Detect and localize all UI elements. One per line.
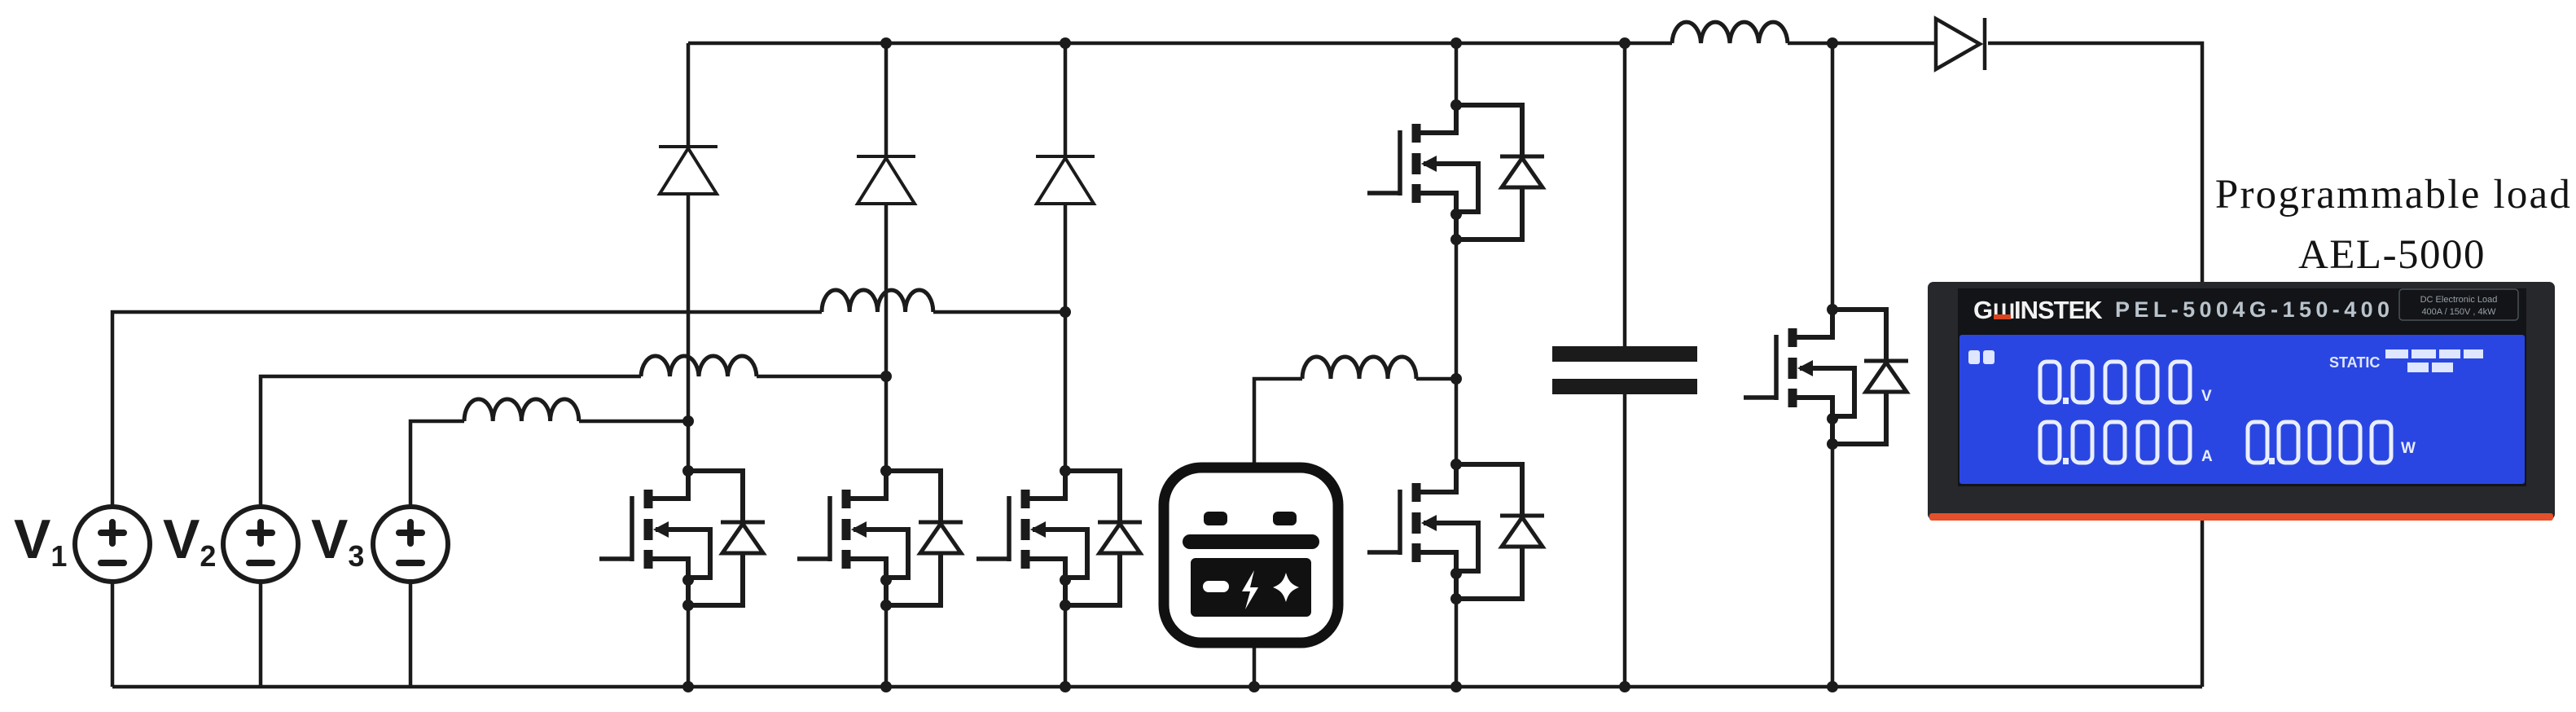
inductor L4 (battery) (1302, 357, 1416, 379)
node L3-leg1 junction (682, 415, 694, 427)
wire top bus inductor-to-diode (1788, 42, 1936, 46)
wire V2 inductor-to-leg2 (757, 375, 886, 379)
transistor Q3 (leg3 MOSFET) (976, 465, 1142, 611)
voltage source V1 (14, 507, 150, 582)
node bottom-bus leg3 junction (1060, 681, 1071, 692)
wire bottom bus (112, 685, 2202, 689)
node L1-leg3 junction (1060, 306, 1071, 318)
inductor L5 (output) (1672, 22, 1788, 43)
wire leg2 mosfet-to-bus (884, 605, 889, 687)
node bottom-bus leg1 junction (682, 681, 694, 692)
svg-text:INSTEK: INSTEK (2014, 296, 2103, 324)
wire leg1 mosfet-to-bus (687, 605, 691, 687)
node top-bus leg3 junction (1060, 37, 1071, 49)
transistor Q6 (load-leg MOSFET) (1744, 304, 1908, 450)
wire V1 inductor-to-leg3 (933, 310, 1065, 314)
svg-text:PEL-5004G-150-400: PEL-5004G-150-400 (2115, 297, 2394, 322)
node bottom-bus leg4 junction (1450, 681, 1462, 692)
diode D3 (1036, 156, 1095, 204)
svg-text:Programmable load: Programmable load (2215, 172, 2572, 218)
logo GW INSTEK (1973, 296, 2103, 324)
inductor L3 (V3 phase) (464, 399, 579, 421)
wire V3 inductor-to-leg1 (579, 420, 688, 424)
node top-bus load-leg junction (1827, 37, 1838, 49)
inductor L2 (V2 phase) (641, 356, 757, 376)
svg-text:G: G (1973, 296, 1993, 324)
wire leg3 diode-to-mosfet (1064, 204, 1068, 471)
wire battery inductor-to-leg4 (1416, 377, 1456, 381)
wire capacitor leg lower (1623, 394, 1627, 687)
svg-text:DC Electronic Load: DC Electronic Load (2420, 295, 2498, 305)
node bottom-bus battery junction (1249, 681, 1260, 692)
node bottom-bus load-leg junction (1827, 681, 1838, 692)
node top-bus leg2 junction (880, 37, 892, 49)
battery B1 (1164, 468, 1338, 643)
svg-text:V1: V1 (14, 508, 67, 573)
transistor Q1 (leg1 MOSFET) (599, 465, 765, 611)
node L2-leg2 junction (880, 371, 892, 382)
wire leg2 vertical upper (884, 43, 889, 155)
inductor L1 (V1 phase) (822, 290, 933, 312)
wire leg2 diode-to-mosfet (884, 204, 889, 471)
label DC Electronic Load ratings (2399, 289, 2518, 320)
svg-text:400A / 150V , 4kW: 400A / 150V , 4kW (2421, 307, 2496, 317)
wire battery top to inductor node (1254, 379, 1302, 463)
capacitor C1 (1552, 346, 1697, 394)
node top-bus capacitor junction (1619, 37, 1630, 49)
svg-text:V: V (2201, 388, 2212, 405)
wire leg1 vertical upper (687, 43, 691, 145)
node bottom-bus capacitor junction (1619, 681, 1630, 692)
svg-text:AEL-5000: AEL-5000 (2298, 232, 2486, 278)
transistor Q2 (leg2 MOSFET) (797, 465, 963, 611)
node bottom-bus leg2 junction (880, 681, 892, 692)
transistor Q4 (leg4 high-side MOSFET) (1367, 99, 1544, 245)
diode D4 (output series) (1936, 18, 1985, 70)
wire leg4 middle (1455, 240, 1459, 464)
programmable load instrument body U1 (1928, 282, 2555, 521)
wire V2 riser (261, 376, 641, 687)
wire leg4 top (1455, 43, 1459, 105)
svg-text:Ш: Ш (1993, 299, 2015, 323)
diode D2 (857, 156, 915, 204)
wire V1 loop (112, 312, 822, 687)
wire leg1 diode-to-mosfet (687, 194, 691, 471)
voltage source V2 (163, 507, 298, 582)
diode D1 (659, 147, 718, 194)
LCD status icon (1968, 350, 1995, 364)
wire leg3 mosfet-to-bus (1064, 605, 1068, 687)
svg-text:W: W (2401, 440, 2416, 457)
wire top bus diode-to-corner and right edge down (1988, 43, 2202, 687)
node L4-leg4 junction (1450, 373, 1462, 385)
node top-bus leg4 junction (1450, 37, 1462, 49)
wire top bus (688, 42, 1672, 46)
wire leg3 vertical upper (1064, 43, 1068, 155)
svg-text:STATIC: STATIC (2329, 354, 2380, 371)
svg-text:A: A (2201, 448, 2213, 465)
wire load leg lower (1831, 444, 1835, 687)
LCD STATIC annunciators (2329, 349, 2483, 372)
wire V3 riser (410, 421, 464, 687)
wire capacitor leg upper (1623, 43, 1627, 346)
wire leg4 bottom (1455, 599, 1459, 687)
svg-text:V3: V3 (311, 508, 364, 573)
svg-text:V2: V2 (163, 508, 216, 573)
voltage source V3 (311, 507, 448, 582)
LCD 7-segment readouts (2040, 362, 2391, 463)
wire load leg upper (1831, 43, 1835, 310)
transistor Q5 (leg4 low-side MOSFET) (1367, 459, 1544, 604)
wire battery bottom (1253, 648, 1257, 687)
